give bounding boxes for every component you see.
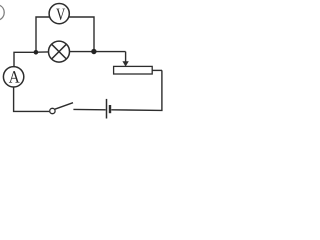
- ammeter label A: [9, 71, 20, 83]
- switch S1 pivot: [50, 108, 55, 113]
- label a) partial: [0, 5, 4, 20]
- wire rheostat right terminal: [152, 69, 162, 71]
- switch S1 lever: [55, 103, 74, 110]
- wire ammeter bottom to switch: [14, 87, 50, 111]
- battery GB1 short plate: [109, 105, 111, 113]
- wire voltmeter left to junction A: [36, 17, 49, 51]
- ammeter P1 circle: [3, 67, 23, 87]
- wire junction A to ammeter top: [14, 52, 36, 67]
- wire junction A to lamp left: [36, 51, 49, 53]
- junction A: [34, 50, 39, 55]
- lamp cross: [52, 44, 67, 59]
- wire switch contact to battery: [73, 108, 105, 110]
- voltmeter U1 circle: [49, 4, 69, 24]
- battery GB1 long plate: [106, 99, 108, 119]
- wire voltmeter right down to junction B: [69, 17, 94, 50]
- wire lamp right through junction B to arrow corner: [70, 51, 126, 53]
- wire battery right to bottom right corner: [111, 70, 162, 110]
- lamp EL1 circle: [49, 41, 70, 62]
- rheostat wiper arrow: [122, 52, 128, 67]
- junction B: [91, 49, 96, 54]
- voltmeter label V: [56, 9, 65, 21]
- rheostat R1 body: [114, 66, 153, 74]
